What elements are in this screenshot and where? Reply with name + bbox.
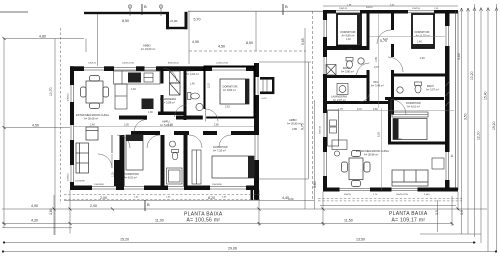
svg-text:160/210: 160/210 (320, 125, 322, 134)
grid bubble x130 (128, 5, 163, 16)
wall lavanderia bottom (327, 101, 394, 104)
section mark B bottom (145, 200, 150, 211)
window dim texts right house (339, 5, 439, 197)
wall roomA/bedroom1 (111, 135, 113, 153)
dim vertical left of house (54, 39, 56, 236)
dim line bottom row4 (2, 251, 497, 253)
bold bedroom walls (205, 67, 255, 118)
sofa right house (392, 170, 428, 186)
dim line left plot mid (4, 127, 70, 129)
svg-text:PLANTA BAIXA: PLANTA BAIXA (389, 211, 428, 217)
terrace boundary (259, 62, 311, 179)
bath2 shower (167, 168, 183, 184)
svg-text:4,50: 4,50 (32, 124, 39, 128)
washing machine (337, 84, 348, 95)
right house south wall (323, 188, 458, 192)
svg-text:A= 20,80 m²: A= 20,80 m² (287, 122, 301, 126)
svg-text:10,20: 10,20 (470, 71, 474, 80)
dim line over right house (323, 5, 458, 7)
wall bedroom3 west (388, 97, 391, 145)
bedroom3 east wardrobe (446, 82, 450, 106)
dim dashed patio y51 (189, 50, 306, 52)
svg-text:BANY: BANY (427, 84, 434, 88)
dining table (81, 76, 109, 109)
wall bath2/bedroom2 (184, 135, 188, 186)
interior dim texts right house (347, 38, 425, 141)
svg-text:135/120: 135/120 (412, 8, 421, 10)
kitchen counter west (328, 110, 339, 146)
terrace stair box (260, 77, 274, 94)
svg-text:5,70: 5,70 (194, 18, 201, 22)
svg-text:80/110/120: 80/110/120 (168, 63, 180, 65)
svg-text:A= 3,97 m²: A= 3,97 m² (426, 88, 439, 92)
wall lavanderia/bany divider (184, 67, 187, 121)
svg-text:BANY: BANY (343, 66, 350, 70)
lavanderia appliances (170, 71, 181, 95)
svg-text:+0,00: +0,00 (170, 19, 178, 23)
dim vertical right 4 (480, 8, 482, 243)
wall corridor west (367, 14, 370, 105)
dim endpoint dots bottom long lines (2, 241, 497, 252)
dimension number labels (31, 18, 387, 251)
tv cabinet living (432, 158, 444, 169)
svg-text:B: B (285, 4, 288, 9)
svg-text:A= 3,08 m²: A= 3,08 m² (162, 100, 175, 104)
interior dim line y110 (327, 110, 454, 112)
svg-text:1,00: 1,00 (148, 111, 153, 114)
wall corridor east (391, 10, 394, 115)
terrace labels (261, 98, 301, 201)
kitchen counter top (114, 71, 161, 109)
svg-text:DORMITORI: DORMITORI (406, 101, 421, 105)
svg-text:8,50: 8,50 (122, 19, 129, 23)
svg-text:4,90: 4,90 (31, 204, 38, 208)
room label dormitori1 (124, 172, 139, 180)
svg-text:2,05: 2,05 (124, 124, 129, 127)
left house north wall (70, 66, 259, 71)
svg-text:B: B (144, 4, 147, 9)
svg-text:8,50: 8,50 (246, 41, 253, 45)
RIGHT-HOUSE (318, 5, 462, 201)
svg-text:A= 3,80 m²: A= 3,80 m² (341, 70, 354, 74)
room label dormitori bold (223, 85, 238, 93)
svg-text:2,80: 2,80 (292, 127, 298, 131)
bedroom3 bed (393, 119, 427, 140)
corridor south wall (131, 131, 254, 135)
dim vertical mid x306 (304, 28, 306, 209)
svg-text:2,40: 2,40 (420, 57, 425, 60)
dim vertical right 2 (467, 8, 469, 234)
svg-text:3,10: 3,10 (208, 83, 211, 88)
svg-text:4,80: 4,80 (39, 35, 46, 39)
svg-text:1,40: 1,40 (90, 124, 95, 127)
svg-text:120/110/120: 120/110/120 (122, 63, 135, 65)
svg-text:5,65: 5,65 (301, 38, 305, 45)
svg-text:19,20: 19,20 (492, 121, 496, 130)
entry porch U (166, 12, 188, 29)
bath2 toilet (172, 150, 179, 160)
bold bedroom bed (220, 79, 249, 104)
left house west wall (70, 66, 74, 190)
door arcs right house (357, 30, 407, 115)
svg-text:1,25: 1,25 (112, 172, 115, 177)
svg-text:120/110: 120/110 (68, 172, 70, 181)
dim vertical right 6 (496, 4, 498, 252)
window dim texts (88, 63, 229, 199)
svg-text:2,63: 2,63 (225, 106, 230, 109)
bedroom1 bed (126, 135, 143, 170)
svg-text:3,5: 3,5 (460, 210, 464, 215)
dim vertical mid x311 dashed (312, 11, 314, 200)
svg-text:A= 100,56 m²: A= 100,56 m² (187, 217, 221, 223)
svg-text:130/45/90: 130/45/90 (212, 184, 223, 186)
left house north windows (84, 67, 246, 70)
svg-text:135/120: 135/120 (88, 63, 97, 65)
svg-text:OFC: OFC (373, 80, 379, 84)
bath2 sink (170, 141, 176, 147)
svg-text:3,80: 3,80 (49, 208, 53, 215)
interior dim texts left house (74, 126, 254, 128)
svg-text:3,50: 3,50 (464, 113, 468, 120)
svg-text:10,70: 10,70 (49, 87, 53, 96)
pergola columns SE (251, 190, 260, 200)
svg-text:1,05: 1,05 (375, 57, 378, 62)
dim vertical top patio x256 (255, 11, 257, 51)
bany toilet (188, 93, 200, 100)
right house east windows (446, 26, 449, 180)
svg-text:1,46: 1,46 (131, 88, 136, 91)
dining table right house (342, 151, 371, 187)
svg-text:3,80: 3,80 (313, 181, 317, 188)
svg-text:A= 7,28 m²: A= 7,28 m² (213, 149, 226, 153)
left house south windows (92, 187, 246, 190)
svg-text:DORMITORI: DORMITORI (213, 145, 228, 149)
dim line left plot top (4, 38, 84, 40)
svg-text:120/110/120: 120/110/120 (216, 63, 229, 65)
rotated dim labels (49, 38, 496, 215)
svg-text:2,00: 2,00 (90, 204, 97, 208)
svg-text:1,40: 1,40 (190, 83, 195, 86)
dim vertical mid x315 (314, 100, 316, 209)
dashed overhang right house (318, 198, 462, 201)
kitchen stove block (128, 73, 141, 83)
svg-text:2,60: 2,60 (373, 108, 378, 111)
svg-text:LAVANDERIA: LAVANDERIA (160, 97, 176, 101)
svg-text:A= 8,92 m²: A= 8,92 m² (223, 88, 236, 92)
right house east wall (445, 10, 450, 192)
wall bedroom1 bottom (327, 46, 367, 50)
bath1 toilet (346, 58, 353, 69)
left house south wall (70, 186, 259, 191)
svg-text:A= 8,01 m²: A= 8,01 m² (124, 176, 137, 180)
left house east windows (255, 77, 258, 160)
svg-text:A= 2,97 m²: A= 2,97 m² (333, 98, 346, 102)
svg-text:A= 3,49 m²: A= 3,49 m² (371, 84, 384, 88)
svg-text:1,60: 1,60 (347, 48, 352, 51)
svg-text:1,40: 1,40 (417, 41, 422, 44)
wall lavanderia south (158, 112, 184, 116)
sofa west (76, 143, 89, 173)
svg-text:90/210: 90/210 (366, 7, 373, 9)
svg-text:A= 28,98 m²: A= 28,98 m² (364, 153, 378, 157)
bedroom3 closet (192, 150, 201, 184)
svg-text:A= 9,86 m²: A= 9,86 m² (342, 34, 355, 38)
wall bedroom3 bottom (388, 142, 450, 145)
dim line bottom row3 (3, 242, 476, 244)
svg-text:DORMITORI: DORMITORI (223, 85, 238, 89)
svg-text:13,50: 13,50 (356, 238, 365, 242)
room label ampli (160, 120, 173, 128)
room label estar left (76, 113, 109, 121)
svg-text:240/55: 240/55 (344, 194, 351, 196)
neighbour wall stub top-left (0, 11, 28, 13)
dim line under-house windows (64, 199, 314, 201)
kitchen fridge block (142, 99, 154, 110)
svg-text:+0,15: +0,15 (261, 98, 267, 100)
bedroom2 dim line horizontal (370, 35, 446, 37)
svg-text:29,06: 29,06 (228, 247, 237, 251)
svg-text:3,045: 3,045 (424, 194, 430, 196)
dim vertical top patio x189 (188, 11, 190, 64)
svg-text:ESTAR-MENJADOR-CUINA: ESTAR-MENJADOR-CUINA (356, 149, 389, 153)
interior dim line living vertical (381, 108, 383, 190)
svg-text:160/110/120: 160/110/120 (396, 194, 409, 196)
left house west windows (71, 85, 74, 182)
extension line house SE (258, 190, 260, 226)
right house west windows (324, 20, 327, 176)
bedroom3 closet (392, 112, 428, 117)
armchair (86, 127, 98, 140)
wall bath2 top (394, 74, 445, 77)
svg-text:0,73: 0,73 (374, 66, 379, 69)
svg-text:B: B (147, 202, 150, 207)
left house east wall (254, 63, 259, 200)
svg-text:DORMITORI: DORMITORI (415, 30, 430, 34)
svg-text:15,20: 15,20 (120, 238, 129, 242)
extension line house SW (69, 190, 71, 234)
dimension tick marks (3, 37, 460, 225)
extension line right house SW (322, 192, 324, 227)
svg-text:A= 109,17 m²: A= 109,17 m² (392, 217, 426, 223)
section mark B top-left (142, 4, 147, 15)
section mark B top (283, 4, 288, 15)
door arcs corridor (117, 69, 231, 149)
wall bedroom1/bath2 (161, 135, 165, 186)
dashed overhang south (64, 195, 262, 200)
wall kitchen/lavanderia divider (161, 67, 164, 84)
right house north windows (336, 11, 434, 13)
room label lavanderia (160, 97, 176, 104)
dim vertical x437 (437, 200, 439, 232)
room labels right house (331, 30, 439, 157)
right house south windows (340, 188, 418, 190)
svg-text:1,40: 1,40 (346, 38, 351, 41)
title left plan (184, 212, 223, 224)
boundary wall top-left thick (84, 12, 166, 14)
svg-text:A= 11,07 m²: A= 11,07 m² (416, 34, 430, 38)
svg-text:135/110: 135/110 (68, 92, 70, 101)
door arc roomA (98, 154, 112, 168)
room label dormitori3 (213, 145, 228, 153)
svg-text:15,40: 15,40 (484, 91, 488, 100)
svg-text:A= 4,64 m²: A= 4,64 m² (186, 72, 199, 76)
patio label (141, 44, 155, 51)
dim line bottom row1 (2, 208, 487, 210)
svg-text:120/30/90: 120/30/90 (75, 181, 86, 183)
svg-text:4,50: 4,50 (218, 45, 225, 49)
bath1 shower (326, 65, 336, 76)
svg-text:4,00: 4,00 (288, 197, 294, 201)
svg-text:11,50: 11,50 (344, 219, 353, 223)
svg-text:12,00: 12,00 (477, 131, 481, 140)
svg-text:135/120: 135/120 (339, 8, 348, 10)
svg-text:5,73: 5,73 (383, 38, 388, 41)
svg-text:0,70: 0,70 (357, 108, 362, 111)
bath1 sink (358, 58, 364, 64)
east gallery edge lines (456, 11, 459, 190)
kitchen island (332, 140, 347, 156)
svg-text:5,30: 5,30 (378, 132, 381, 137)
svg-text:DORMITORI: DORMITORI (124, 172, 139, 176)
dim vertical right 3 (474, 4, 476, 237)
svg-text:2,40: 2,40 (397, 138, 402, 141)
bath2 sink (397, 87, 403, 93)
svg-text:11,00: 11,00 (155, 219, 164, 223)
right house north wall (323, 10, 458, 14)
extension line left plot (53, 195, 55, 235)
dim vertical right 1 (461, 8, 463, 234)
svg-text:130/45/90: 130/45/90 (94, 184, 105, 186)
svg-text:A= 8,01 m²: A= 8,01 m² (407, 105, 420, 109)
svg-text:A= 28,08 m²: A= 28,08 m² (84, 117, 98, 121)
dim vertical right 5 (487, 8, 489, 252)
svg-text:A= 24,00 m²: A= 24,00 m² (141, 47, 155, 51)
bed top-left bold (337, 14, 361, 46)
svg-text:5,65: 5,65 (457, 53, 461, 60)
dim connector y234 (420, 233, 481, 235)
corridor dim line vertical (378, 14, 380, 108)
svg-text:BANY: BANY (187, 69, 194, 73)
svg-text:4,30: 4,30 (31, 219, 38, 223)
svg-text:2,80: 2,80 (214, 124, 219, 127)
bed top-right bold (412, 14, 434, 48)
svg-text:1,75: 1,75 (338, 108, 343, 111)
svg-text:DORMITORI: DORMITORI (341, 30, 356, 34)
svg-text:ESTAR-MENJADOR-CUINA: ESTAR-MENJADOR-CUINA (76, 113, 109, 117)
bedroom3 bed (212, 156, 254, 178)
rotated west wall labels (68, 92, 70, 181)
extension line right house SE (451, 196, 453, 226)
svg-text:3,5: 3,5 (435, 210, 439, 215)
svg-text:4,90: 4,90 (192, 40, 199, 44)
svg-text:1,35: 1,35 (168, 124, 173, 127)
right house west wall (323, 10, 327, 192)
corridor north wall (119, 116, 205, 120)
dim arrowheads right cluster (460, 8, 498, 12)
bany bidet (196, 103, 203, 110)
wall bath2 bottom (385, 97, 444, 100)
dim line bottom row2 (2, 223, 452, 225)
LEFT-HOUSE (64, 62, 311, 201)
patio boundary line (188, 10, 323, 12)
bath2 toilet (415, 82, 422, 93)
wall bath1 bottom (327, 75, 370, 78)
dim vertical far-left (3, 39, 5, 229)
svg-text:AMBO: AMBO (289, 118, 297, 122)
room label bany (186, 69, 199, 86)
title right plan (389, 211, 428, 223)
